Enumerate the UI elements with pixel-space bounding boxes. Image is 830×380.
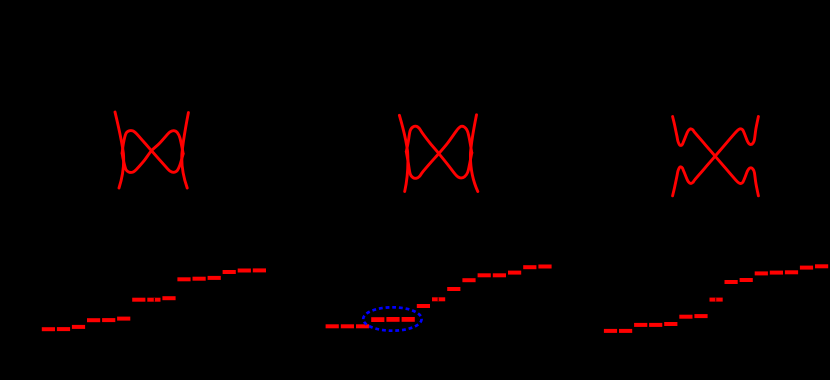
panel 2 ascending lobe band <box>406 126 472 178</box>
notch splitting staircase 3 middle dash <box>714 298 717 302</box>
panel 2 band structure <box>399 115 477 192</box>
panel 3 band structure <box>673 117 759 196</box>
energy level dash 2-15 <box>538 265 551 269</box>
panel 1 right arc band <box>182 113 189 188</box>
highlight ellipse around degenerate levels <box>363 307 421 330</box>
panel 1 descending lobe band <box>122 131 183 173</box>
energy level dash 2-9 <box>447 287 460 291</box>
energy level dash 3-7 <box>694 314 707 318</box>
energy level dash 3-11 <box>755 271 768 275</box>
energy level dash 2-2 <box>341 324 354 328</box>
energy level dash 1-5 <box>102 318 115 322</box>
energy level dash 2-4 <box>371 317 384 322</box>
energy level dash 2-11 <box>478 273 491 277</box>
panel 2 descending lobe band <box>406 126 472 178</box>
energy level dash 1-1 <box>42 327 55 331</box>
energy level dash 1-4 <box>87 318 100 322</box>
energy level dash 2-5 <box>386 317 399 322</box>
energy level dash 1-2 <box>57 327 70 331</box>
energy level dash 1-9 <box>162 296 175 300</box>
energy level dash 3-1 <box>604 329 617 333</box>
panel 2 left arc band <box>399 115 408 191</box>
panel 1 ascending lobe band <box>122 131 183 173</box>
energy level dash 1-3 <box>72 325 85 329</box>
energy level dash 1-10 <box>177 277 190 281</box>
energy level dash 2-3 <box>356 324 369 328</box>
notch splitting staircase 1 middle dash <box>154 298 155 302</box>
staircase 3 energy levels <box>604 264 828 333</box>
energy level dash 3-13 <box>785 270 798 274</box>
panel 2 right arc band <box>470 115 477 192</box>
energy level dash 2-14 <box>523 265 536 269</box>
energy level dash 1-14 <box>238 269 251 273</box>
energy level dash 2-1 <box>326 324 339 328</box>
energy level dash 3-9 <box>725 280 738 284</box>
energy level dash 3-6 <box>679 315 692 319</box>
staircase 2 energy levels <box>326 265 552 329</box>
panel 1 band structure <box>115 112 188 188</box>
panel 1 left arc band <box>115 112 124 188</box>
staircase 1 energy levels <box>42 268 266 331</box>
energy level dash 3-12 <box>770 271 783 275</box>
energy level dash 2-13 <box>508 271 521 275</box>
panel 3 descending wiggly band <box>673 117 759 196</box>
energy level dash 3-5 <box>664 322 677 326</box>
panel 3 ascending wiggly band <box>673 117 759 196</box>
energy level dash 2-8 <box>432 297 445 301</box>
energy level dash 1-6 <box>117 317 130 321</box>
energy level dash 2-12 <box>493 273 506 277</box>
energy level dash 1-12 <box>208 276 221 280</box>
energy level dash 3-3 <box>634 323 647 327</box>
energy level dash 3-4 <box>649 323 662 327</box>
energy level dash 1-13 <box>223 270 236 274</box>
energy level dash 3-10 <box>740 278 753 282</box>
energy level dash 2-7 <box>417 304 430 308</box>
energy level dash 1-7 <box>132 298 145 302</box>
energy level dash 3-15 <box>815 264 828 268</box>
energy level dash 3-8 <box>710 298 723 302</box>
energy level dash 1-8 <box>147 298 160 302</box>
energy level dash 2-6 <box>402 317 415 322</box>
energy level dash 2-10 <box>462 278 475 282</box>
energy level dash 3-14 <box>800 266 813 270</box>
energy level dash 3-2 <box>619 329 632 333</box>
notch splitting staircase 2 middle dash <box>437 298 440 302</box>
energy level dash 1-15 <box>253 268 266 272</box>
energy level dash 1-11 <box>193 277 206 281</box>
